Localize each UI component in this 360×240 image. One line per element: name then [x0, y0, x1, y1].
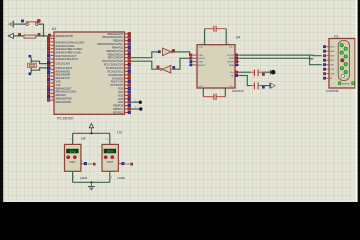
wire crystal bottom pin	[30, 68, 32, 73]
svg-text:RE0/AN5/RD2: RE0/AN5/RD2	[56, 101, 72, 104]
U4 right pins T1OUT R1IN T2OUT R2IN VS+ VS-	[227, 54, 239, 78]
svg-text:T1OUT: T1OUT	[227, 55, 235, 57]
U3 green temperature display	[104, 149, 116, 154]
wire upper inverter output to MAX232 T1IN	[173, 52, 192, 55]
U4 top pin C1- stub	[225, 29, 227, 45]
svg-text:T1IN: T1IN	[198, 55, 203, 57]
svg-text:C2-: C2-	[229, 86, 233, 88]
U4 top pin C1+ stub	[204, 29, 206, 45]
U2 red mark at VOUT net	[93, 163, 95, 165]
wire crystal to OSC2	[31, 68, 51, 70]
svg-text:C1-: C1-	[229, 47, 233, 49]
svg-text:MAX232: MAX232	[232, 89, 244, 93]
junction on bottom rail	[90, 181, 92, 183]
P1 DB9 pin holes	[340, 43, 348, 77]
crystal X1	[28, 63, 37, 67]
svg-text:RTS: RTS	[330, 60, 335, 62]
svg-text:VOUT: VOUT	[69, 162, 76, 164]
svg-text:T2IN: T2IN	[198, 62, 203, 64]
svg-text:2: 2	[119, 161, 120, 163]
svg-text:1: 1	[135, 100, 136, 102]
capacitor C3	[251, 69, 262, 76]
svg-text:1: 1	[107, 139, 108, 141]
push button RESET	[26, 22, 38, 26]
U3 red mark at VOUT net	[131, 163, 133, 165]
power dot terminal at VS+	[270, 70, 275, 75]
power terminal arrow (left) for MCLR pull-up	[8, 33, 13, 38]
right white and black screen edge	[355, 0, 357, 202]
U4 MAX232 body	[197, 45, 235, 88]
inverter upper (U1 TX buffer)	[163, 48, 174, 56]
svg-text:0.37: 0.37	[88, 164, 93, 166]
U1 right pins with logic-state squares	[125, 32, 131, 113]
svg-text:R1OUT: R1OUT	[198, 58, 206, 60]
wire lower inverter output to U1 RX	[130, 61, 159, 69]
bottom-right pin wire to dot terminal 1	[130, 101, 138, 103]
red logic-state square left of R1	[18, 33, 20, 35]
svg-text:37.0: 37.0	[107, 150, 113, 154]
power terminal arrow above LM35 rail	[89, 124, 93, 134]
U2 increment button red dot	[67, 156, 70, 159]
temperature sensor U3 LM35 body	[102, 144, 118, 171]
U1 right pin name labels	[98, 33, 124, 115]
blue state square crystal top pin	[29, 55, 31, 57]
wire C4 to ground terminal	[262, 85, 270, 87]
microcontroller U1 PIC16F887 body	[54, 32, 125, 114]
svg-text:RD7/P1D: RD7/P1D	[113, 112, 123, 115]
capacitor C4	[251, 82, 262, 89]
svg-text:CTS: CTS	[330, 69, 335, 71]
U2 blue state square at VOUT	[84, 162, 87, 165]
wire crystal to OSC1	[31, 61, 51, 63]
svg-text:OSC1/CLKIN: OSC1/CLKIN	[56, 63, 70, 66]
svg-text:DCD: DCD	[330, 47, 335, 49]
svg-text:37.0: 37.0	[69, 150, 75, 154]
U3 blue state square at VOUT	[122, 162, 125, 165]
blue state square crystal bottom pin	[29, 73, 31, 75]
bottom-right pin wire to dot terminal 2	[130, 108, 139, 110]
svg-text:3: 3	[111, 177, 112, 179]
U1 left pins with logic-state squares	[47, 36, 54, 101]
capacitor C1 between C1+ and C1-	[205, 26, 227, 32]
wire R1IN to P1 TXD	[239, 58, 322, 64]
wire ground to button	[14, 23, 26, 25]
wire button to junction	[38, 24, 44, 36]
svg-text:VS-: VS-	[230, 75, 234, 77]
svg-text:1: 1	[70, 139, 71, 141]
red state square at lower inverter output	[157, 66, 159, 68]
blue state square at upper inverter input	[158, 51, 160, 53]
wire U2 pin1 to rail	[72, 133, 74, 144]
svg-text:C1+: C1+	[199, 47, 204, 49]
U4 bottom pin C2- stub	[224, 88, 226, 97]
wire VS- to capacitor C4	[239, 76, 250, 86]
svg-text:R1IN: R1IN	[229, 58, 234, 60]
ground terminal (rotated left) for reset button	[9, 21, 13, 28]
inverter lower (U1 RX buffer, mirrored)	[160, 65, 171, 73]
wire jog detail near P1	[310, 55, 314, 59]
dot terminal 2	[139, 107, 142, 110]
U2 green temperature display	[66, 149, 78, 154]
svg-text:RXD: RXD	[330, 56, 335, 58]
U1 left pin name labels	[56, 35, 85, 104]
svg-text:ERROR: ERROR	[342, 84, 350, 86]
U4 bottom pin C2+ stub	[202, 88, 204, 97]
svg-text:TXD: TXD	[330, 65, 335, 67]
U4 top pin labels	[199, 47, 233, 49]
red state square at upper inverter output	[172, 50, 174, 52]
U4 bottom pin labels	[199, 86, 233, 88]
svg-text:C2+: C2+	[199, 86, 204, 88]
wire U3 pin3 to bottom rail	[109, 171, 111, 182]
ground terminal (rotated right) at VS-	[270, 83, 275, 89]
P1 DB9 connector outline	[338, 41, 349, 81]
blue state square at lower inverter input	[173, 66, 175, 68]
ground symbol below bottom rail	[88, 182, 95, 190]
wire VS+ to capacitor C3	[239, 71, 250, 73]
svg-text:LM35: LM35	[118, 176, 126, 180]
wire U1 TX to inverter input	[130, 52, 160, 58]
svg-text:RA5/AN4/SS/C2OUT: RA5/AN4/SS/C2OUT	[56, 58, 79, 61]
blue state square after C4	[262, 86, 264, 88]
svg-text:R2IN: R2IN	[229, 65, 234, 67]
svg-text:1: 1	[202, 43, 203, 45]
svg-text:1: 1	[135, 107, 136, 109]
wire R1 to U1 MCLR pin	[36, 35, 51, 37]
red state square after C3	[262, 73, 264, 75]
wire T1OUT to P1 RXD	[239, 54, 322, 57]
red logic-state square at MCLR pin	[48, 34, 50, 36]
wire power arrow to resistor R1	[13, 35, 24, 37]
U3 VOUT pin stub	[118, 163, 121, 165]
wire U3 pin1 to rail	[109, 133, 111, 144]
U4 left pins T1IN R1OUT T2IN R2OUT	[190, 54, 206, 67]
P1 left pins DCD DSR RXD RTS TXD CTS DTR RI	[323, 46, 335, 81]
resistor R1	[24, 35, 36, 38]
junction on top rail	[90, 132, 92, 134]
LM35 top supply rail wire	[73, 132, 110, 134]
svg-text:2: 2	[81, 161, 82, 163]
left black screen edge	[0, 0, 3, 202]
LM35 bottom ground rail wire	[73, 181, 110, 183]
svg-text:PIC16F887: PIC16F887	[57, 117, 74, 121]
svg-text:LM35: LM35	[80, 176, 88, 180]
svg-text:U1: U1	[52, 27, 57, 31]
svg-text:DTR: DTR	[330, 74, 335, 76]
U2 decrement button red dot	[73, 156, 76, 159]
wire C3 to power dot terminal	[262, 71, 270, 73]
dot terminal 1	[139, 101, 142, 104]
svg-text:U3: U3	[117, 130, 121, 134]
U3 increment button red dot	[104, 156, 107, 159]
capacitor C2 between C2+ and C2-	[203, 94, 225, 100]
svg-text:U4: U4	[236, 36, 241, 40]
junction node at reset net	[43, 35, 45, 37]
svg-text:VOUT: VOUT	[107, 162, 114, 164]
red logic-state square right of R1	[38, 33, 40, 35]
svg-text:0.37: 0.37	[125, 164, 130, 166]
svg-text:DSR: DSR	[330, 51, 335, 53]
temperature sensor U2 LM35 body	[65, 144, 81, 171]
svg-text:R2OUT: R2OUT	[198, 65, 206, 67]
svg-text:COMPIM: COMPIM	[326, 89, 339, 93]
P1 COMPIM body	[329, 39, 355, 89]
U2 VOUT pin stub	[81, 163, 84, 165]
P1 status bar with green squares and ERROR text	[338, 82, 354, 86]
svg-text:RE3/MCLR/VPP: RE3/MCLR/VPP	[56, 35, 74, 38]
wire U2 pin3 to bottom rail	[72, 171, 74, 182]
svg-text:3: 3	[228, 43, 229, 45]
svg-text:3: 3	[74, 177, 75, 179]
wire crystal top pin	[30, 57, 32, 63]
U3 decrement button red dot	[111, 156, 114, 159]
svg-text:T2OUT: T2OUT	[227, 62, 235, 64]
wire MAX232 R1OUT to lower inverter input	[172, 58, 192, 69]
svg-text:VS+: VS+	[230, 72, 235, 74]
red indicator blob at button right	[37, 19, 41, 23]
blue logic-state square at button left pin	[21, 20, 23, 22]
svg-text:U2: U2	[81, 136, 85, 140]
